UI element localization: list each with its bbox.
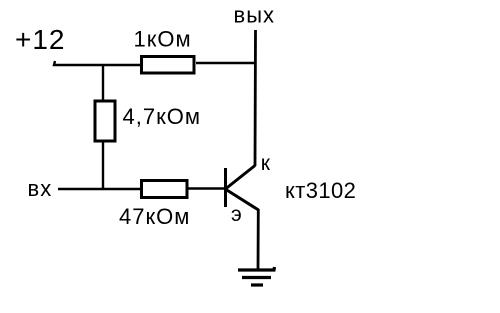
svg-text:4,7кОм: 4,7кОм — [123, 104, 201, 129]
wire top-left from +12 to R1 — [54, 61, 141, 65]
svg-text:+12: +12 — [15, 24, 66, 55]
wire emitter vertical to ground — [257, 209, 260, 270]
wire R1 right to output node — [196, 62, 255, 64]
wire R2 bottom to input line junction — [102, 141, 104, 189]
resistor R3 body — [142, 181, 188, 198]
resistor R2 body — [95, 101, 115, 141]
ground — [238, 267, 275, 285]
svg-text:вх: вх — [28, 176, 53, 201]
resistor R1 body — [142, 57, 195, 74]
transistor Q1 base bar — [224, 168, 227, 207]
transistor Q1 emitter diagonal — [226, 190, 259, 211]
svg-text:к: к — [261, 152, 271, 175]
svg-text:кт3102: кт3102 — [285, 178, 356, 203]
svg-text:вых: вых — [234, 3, 276, 28]
wire R3 to base — [188, 187, 226, 189]
wire output vertical down to collector — [254, 30, 257, 166]
transistor Q1 collector diagonal — [226, 166, 255, 189]
svg-text:47кОм: 47кОм — [119, 204, 190, 229]
wire junction to R2 top — [102, 65, 104, 101]
wire input to R3 — [58, 188, 141, 190]
svg-text:1кОм: 1кОм — [134, 26, 192, 51]
svg-text:э: э — [231, 203, 243, 226]
